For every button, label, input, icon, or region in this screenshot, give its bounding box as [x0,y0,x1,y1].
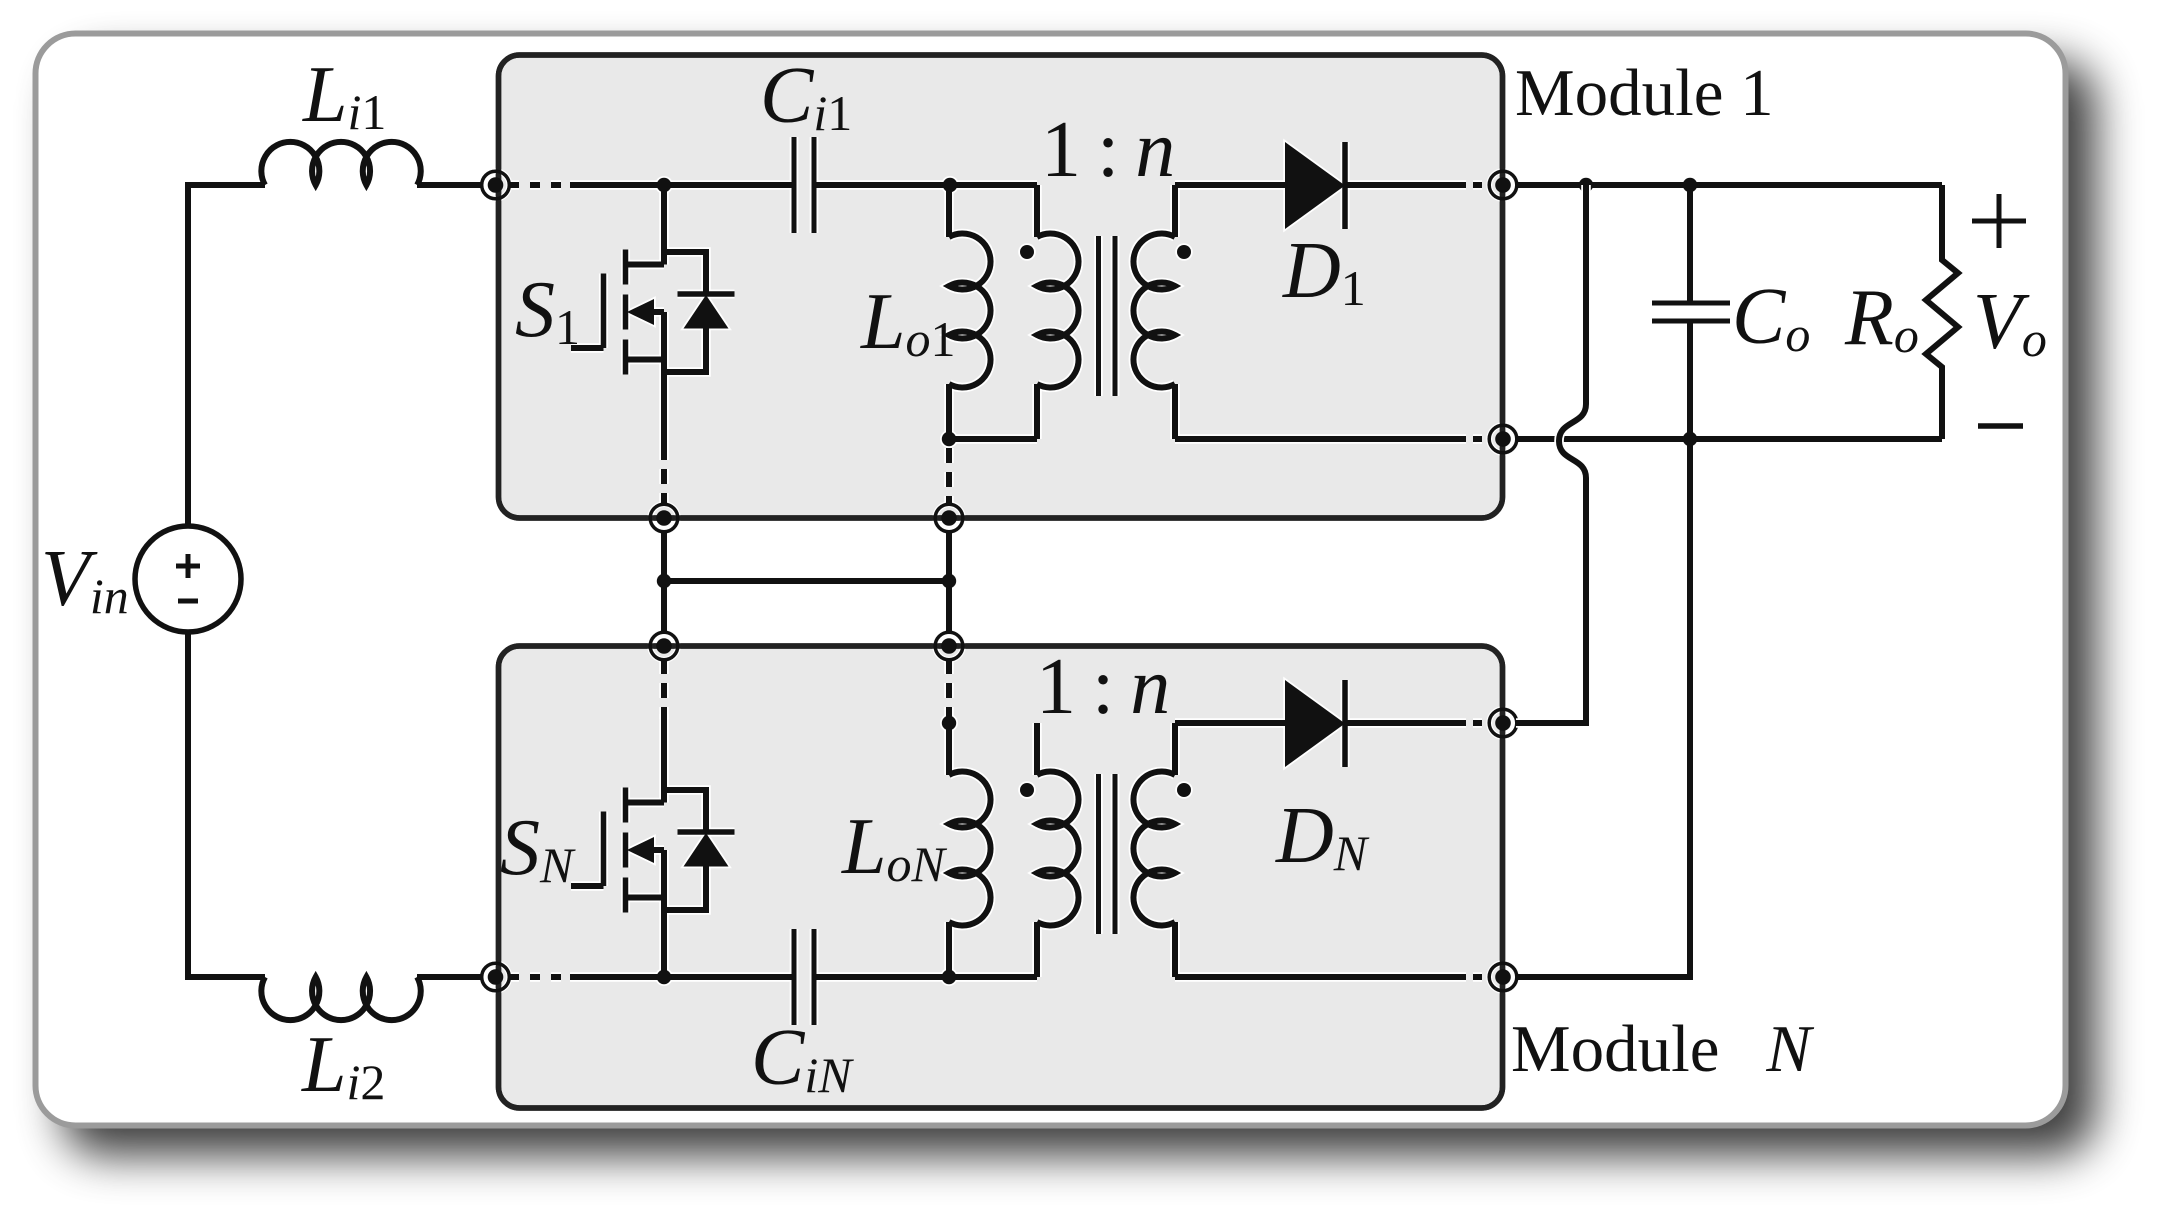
svg-text:Module N: Module N [1511,1012,1814,1086]
svg-text:1 : n: 1 : n [1041,106,1175,194]
svg-text:1 : n: 1 : n [1036,643,1170,731]
svg-text:Module 1: Module 1 [1515,56,1774,130]
